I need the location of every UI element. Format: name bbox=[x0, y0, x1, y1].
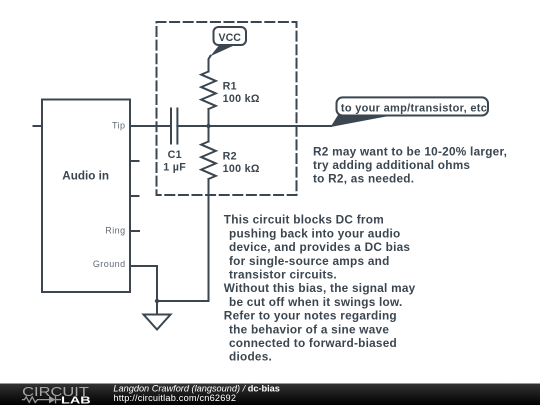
svg-text:R2: R2 bbox=[223, 150, 237, 162]
svg-text:to R2, as needed.: to R2, as needed. bbox=[313, 172, 414, 186]
svg-text:Ground: Ground bbox=[93, 259, 126, 269]
svg-text:Refer to your notes regarding: Refer to your notes regarding bbox=[224, 309, 397, 323]
label R2 value bbox=[223, 150, 260, 175]
footer credit text bbox=[113, 383, 280, 403]
capacitor C1 plates bbox=[171, 109, 177, 144]
ground junction dot bbox=[155, 299, 159, 303]
wire: ground node stub bbox=[156, 301, 158, 315]
wire: Ground pin to ground node bbox=[130, 266, 157, 301]
svg-text:try adding additional ohms: try adding additional ohms bbox=[313, 158, 470, 172]
svg-text:1 µF: 1 µF bbox=[163, 161, 186, 173]
resistor R1 body bbox=[201, 72, 216, 110]
svg-text:VCC: VCC bbox=[219, 32, 242, 44]
svg-text:for single-source amps and: for single-source amps and bbox=[229, 254, 390, 268]
net flag VCC balloon bbox=[210, 27, 246, 56]
svg-text:connected to forward-biased: connected to forward-biased bbox=[229, 336, 397, 350]
annotation flag: to your amp/transistor, etc bbox=[331, 97, 489, 127]
svg-text:R2 may want to be 10-20% large: R2 may want to be 10-20% larger, bbox=[313, 144, 507, 158]
wire: R2 bottom to ground run bbox=[157, 179, 209, 301]
pin stub (unlabeled, y=196) bbox=[130, 195, 139, 197]
dashed box (bias network enclosure) bbox=[157, 22, 297, 195]
wire: node A to resistor R2 bbox=[208, 126, 210, 142]
svg-text:R1: R1 bbox=[223, 80, 237, 92]
pin stub (unlabeled, y=161) bbox=[130, 160, 139, 162]
svg-text:100 kΩ: 100 kΩ bbox=[223, 163, 260, 175]
svg-text:diodes.: diodes. bbox=[229, 350, 272, 364]
resistor R2 body bbox=[201, 142, 216, 180]
footer bar bbox=[0, 384, 540, 406]
svg-text:This circuit blocks DC from: This circuit blocks DC from bbox=[224, 213, 384, 227]
svg-text:Ring: Ring bbox=[105, 226, 125, 236]
annotation text: circuit description bbox=[224, 213, 416, 364]
label R1 value bbox=[223, 80, 260, 105]
svg-text:pushing back into your audio: pushing back into your audio bbox=[229, 226, 401, 240]
svg-text:device, and provides a DC bias: device, and provides a DC bias bbox=[229, 240, 410, 254]
ground symbol bbox=[144, 315, 171, 330]
svg-text:100 kΩ: 100 kΩ bbox=[223, 93, 260, 105]
svg-text:the behavior of a sine wave: the behavior of a sine wave bbox=[229, 322, 389, 336]
CircuitLab logo bbox=[22, 385, 91, 406]
label C1 value bbox=[163, 149, 186, 174]
wire: node A to annotation flag bbox=[209, 125, 332, 127]
svg-text:to your amp/transistor, etc: to your amp/transistor, etc bbox=[341, 102, 487, 114]
svg-text:C1: C1 bbox=[168, 149, 182, 161]
wire: VCC tail to resistor R1 bbox=[209, 56, 211, 72]
pin stub Ring bbox=[130, 230, 139, 232]
svg-text:Langdon Crawford (langsound) /: Langdon Crawford (langsound) / dc-bias bbox=[113, 383, 280, 393]
svg-text:transistor circuits.: transistor circuits. bbox=[229, 268, 337, 282]
node A junction dot bbox=[206, 124, 210, 128]
annotation text: R2 note bbox=[313, 144, 507, 185]
svg-text:Audio in: Audio in bbox=[62, 169, 109, 182]
wire: Tip pin to capacitor C1 bbox=[130, 125, 171, 127]
wire: left stub of Tip pin bbox=[34, 125, 43, 127]
svg-text:be cut off when it swings low.: be cut off when it swings low. bbox=[229, 295, 403, 309]
svg-text:Without this bias, the signal: Without this bias, the signal may bbox=[224, 281, 416, 295]
svg-text:http://circuitlab.com/cn62692: http://circuitlab.com/cn62692 bbox=[113, 393, 236, 403]
svg-text:Tip: Tip bbox=[112, 121, 126, 131]
svg-text:LAB: LAB bbox=[61, 395, 91, 405]
audio jack J1 box (Audio in) bbox=[42, 100, 130, 293]
wire: R1 to node A bbox=[208, 109, 210, 126]
wire: capacitor C1 to node A bbox=[177, 125, 208, 127]
